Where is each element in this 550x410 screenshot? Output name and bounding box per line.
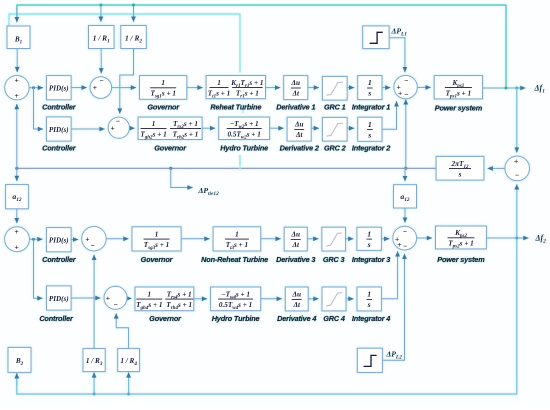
svg-text:−: − [404, 76, 408, 85]
svg-text:Derivative 4: Derivative 4 [277, 314, 316, 323]
svg-text:−: − [404, 90, 408, 99]
svg-text:Integrator 2: Integrator 2 [352, 144, 390, 153]
svg-text:Power system: Power system [435, 104, 483, 113]
svg-text:Δu: Δu [291, 79, 301, 87]
svg-text:Controller: Controller [42, 103, 77, 112]
svg-text:Integrator 4: Integrator 4 [352, 314, 390, 323]
svg-text:1: 1 [367, 229, 371, 238]
svg-text:+: + [15, 242, 19, 251]
svg-text:GRC 2: GRC 2 [324, 144, 346, 153]
svg-text:Integrator 1: Integrator 1 [352, 103, 390, 112]
svg-text:+: + [110, 123, 114, 132]
svg-text:1: 1 [161, 79, 165, 87]
svg-text:GRC 3: GRC 3 [323, 255, 345, 264]
svg-text:PID(s): PID(s) [49, 237, 69, 245]
svg-text:Governor: Governor [149, 314, 182, 323]
svg-text:Δt: Δt [291, 241, 300, 249]
svg-text:Δt: Δt [292, 301, 301, 309]
svg-text:+: + [106, 293, 110, 302]
svg-text:s: s [367, 130, 371, 139]
svg-text:Non-Reheat Turbine: Non-Reheat Turbine [201, 255, 268, 264]
svg-text:+: + [14, 91, 18, 100]
svg-text:+: + [397, 240, 401, 249]
svg-text:Δt: Δt [292, 90, 301, 98]
svg-text:Reheat Turbine: Reheat Turbine [210, 103, 261, 112]
svg-text:+: + [14, 76, 18, 85]
svg-text:PID(s): PID(s) [49, 295, 69, 303]
svg-text:Δu: Δu [290, 231, 300, 239]
svg-text:−: − [99, 76, 103, 85]
svg-text:PID(s): PID(s) [49, 85, 69, 93]
svg-text:Controller: Controller [42, 144, 77, 153]
svg-text:+: + [15, 227, 19, 236]
svg-text:Derivative 3: Derivative 3 [276, 255, 315, 264]
svg-text:Hydro Turbine: Hydro Turbine [220, 144, 268, 153]
svg-text:s: s [367, 89, 371, 98]
svg-text:Governor: Governor [147, 103, 180, 112]
svg-text:Δu: Δu [291, 291, 301, 299]
svg-text:PID(s): PID(s) [49, 126, 69, 134]
svg-text:+: + [398, 89, 402, 98]
svg-text:1: 1 [368, 78, 372, 87]
svg-text:Controller: Controller [42, 255, 77, 264]
svg-text:1: 1 [367, 290, 371, 299]
svg-text:Δu: Δu [294, 121, 304, 129]
svg-text:1: 1 [152, 120, 156, 128]
svg-text:1: 1 [368, 120, 372, 129]
svg-text:Derivative 2: Derivative 2 [280, 144, 319, 153]
svg-text:Governor: Governor [141, 255, 174, 264]
svg-text:Controller: Controller [39, 314, 74, 323]
svg-text:s: s [458, 170, 462, 178]
svg-text:1: 1 [217, 79, 221, 87]
svg-text:−: − [403, 241, 407, 250]
svg-text:−: − [403, 227, 407, 236]
svg-text:−: − [116, 116, 120, 125]
svg-text:Derivative 1: Derivative 1 [276, 103, 315, 112]
svg-text:1: 1 [235, 230, 239, 238]
svg-text:−: − [91, 241, 95, 250]
svg-text:Power system: Power system [437, 255, 485, 264]
svg-text:+: + [93, 83, 97, 92]
svg-text:+: + [85, 234, 89, 243]
svg-text:Integrator 3: Integrator 3 [352, 255, 390, 264]
svg-text:GRC 4: GRC 4 [323, 314, 345, 323]
svg-text:Governor: Governor [154, 144, 187, 153]
svg-text:−: − [114, 300, 118, 309]
svg-text:1: 1 [148, 290, 152, 298]
svg-text:s: s [367, 240, 371, 249]
svg-text:−: − [515, 171, 519, 180]
svg-text:s: s [367, 300, 371, 309]
svg-text:Hydro Turbine: Hydro Turbine [212, 314, 260, 323]
svg-text:Δt: Δt [295, 131, 304, 139]
svg-text:1: 1 [155, 230, 159, 238]
svg-text:+: + [514, 156, 518, 165]
svg-text:GRC 1: GRC 1 [324, 103, 346, 112]
